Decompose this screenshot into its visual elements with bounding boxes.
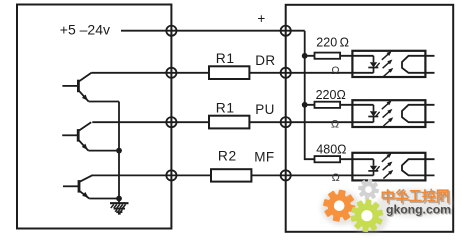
terminal DR left [166, 68, 176, 78]
terminal +V left [166, 26, 176, 36]
transistor Q1 base lead [62, 85, 77, 87]
terminal DR right [281, 68, 291, 78]
svg-text:PU: PU [255, 102, 274, 117]
green gear [350, 199, 383, 232]
resistor 480ohm row3 [315, 156, 341, 162]
wire Q3 emitter [89, 198, 119, 200]
svg-text:DR: DR [255, 53, 275, 68]
optocoupler U2 box [352, 100, 425, 127]
svg-text:R2: R2 [218, 149, 237, 164]
logo text zhonghua-gongkong-wang [382, 189, 447, 202]
transistor Q1 base bar [77, 80, 80, 93]
logo text zhonghua-gongkong-wang shadow [384, 191, 449, 204]
svg-text:MF: MF [254, 150, 274, 165]
junction bus-row1 [302, 53, 308, 59]
transistor Q3 base bar [78, 180, 81, 193]
transistor Q3 collector [79, 175, 92, 182]
driver box (right) [286, 5, 454, 232]
svg-text:+: + [257, 11, 265, 26]
wire 220R feed row1 [305, 55, 374, 57]
transistor Q2 emitter [78, 140, 88, 151]
wire 480R feed row3 [315, 158, 374, 160]
logo watermark group [321, 179, 453, 234]
resistor R2 (MF) [211, 169, 251, 181]
terminal MF left [166, 170, 176, 180]
phototransistor Q4 [402, 56, 435, 73]
phototransistor Q5 [402, 105, 435, 122]
wire Q1 emitter [89, 101, 119, 103]
resistor R1 (PU) [209, 116, 249, 129]
terminal PU right [281, 117, 291, 127]
phototransistor Q6 [402, 159, 435, 175]
resistor 220ohm row2 [315, 102, 341, 108]
transistor Q1 collector [78, 73, 91, 82]
wire DR line [91, 72, 373, 74]
junction emitters-ground [116, 196, 122, 202]
svg-text:480Ω: 480Ω [316, 142, 346, 156]
svg-text:220 Ω: 220 Ω [316, 36, 349, 50]
optocoupler U3 box [352, 153, 425, 181]
resistor R1 (DR) [209, 66, 249, 79]
junction bus-row2 [302, 102, 308, 108]
optocoupler U1 box [352, 51, 425, 77]
light arrows U3 [382, 153, 393, 179]
transistor Q2 base bar [77, 129, 80, 142]
svg-text:Ω: Ω [331, 65, 339, 77]
orange gear [323, 189, 356, 222]
transistor Q1 emitter [78, 90, 88, 101]
svg-text:R1: R1 [216, 100, 235, 115]
junction emitters Q1-Q2 [116, 148, 122, 154]
wire MF line [91, 174, 373, 176]
resistor 220ohm row1 [315, 53, 341, 59]
terminal MF right [281, 170, 291, 180]
wire Q2 emitter [88, 150, 119, 152]
terminal PU left [166, 117, 176, 127]
transistor Q3 base lead [63, 185, 78, 187]
wire +V supply rail [121, 30, 305, 32]
wire PU line [92, 121, 373, 123]
ground [110, 199, 129, 215]
gray gear [358, 179, 379, 200]
svg-text:R1: R1 [216, 51, 235, 66]
LED D2 [368, 105, 379, 122]
wire emitter bus [118, 102, 120, 199]
light arrows U2 [382, 101, 393, 127]
LED D1 [368, 56, 379, 73]
svg-text:220Ω: 220Ω [316, 88, 346, 102]
svg-text:+5 –24v: +5 –24v [60, 22, 110, 38]
transistor Q3 emitter [79, 191, 89, 199]
svg-text:gkong.com: gkong.com [386, 202, 451, 216]
LED D3 [368, 159, 379, 175]
wire +V bus in driver box [305, 31, 315, 160]
logo soft shadow [321, 189, 453, 234]
transistor Q2 collector [78, 122, 91, 131]
svg-text:Ω: Ω [331, 119, 339, 131]
wire 220R feed row2 [305, 104, 374, 106]
svg-text:Ω: Ω [332, 172, 340, 184]
controller box (left) [17, 5, 171, 229]
light arrows U1 [382, 51, 393, 77]
transistor Q2 base lead [62, 134, 77, 136]
terminal +V right [281, 26, 291, 36]
